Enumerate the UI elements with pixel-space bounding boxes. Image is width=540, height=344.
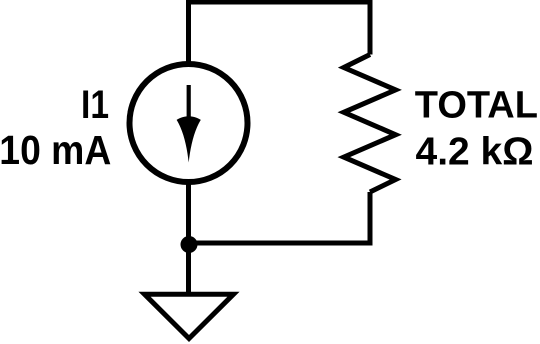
resistor TOTAL 4.2 kOhm (zigzag) bbox=[344, 55, 396, 193]
ground symbol bbox=[145, 294, 234, 338]
wire: top horizontal from current source to resistor bbox=[189, 2, 371, 64]
current source arrow shaft bbox=[187, 85, 191, 122]
wire: current source bottom lead down through node to ground bbox=[186, 182, 191, 294]
wire: resistor bottom lead and bottom horizontal to node bbox=[189, 192, 371, 243]
current source arrowhead bbox=[177, 116, 201, 162]
node junction dot bbox=[181, 236, 198, 253]
svg-text:4.2 kΩ: 4.2 kΩ bbox=[416, 130, 534, 173]
svg-text:I1: I1 bbox=[81, 83, 109, 127]
current source U: I1 circle bbox=[130, 64, 248, 182]
svg-text:TOTAL: TOTAL bbox=[415, 84, 538, 126]
svg-text:10 mA: 10 mA bbox=[0, 127, 111, 173]
